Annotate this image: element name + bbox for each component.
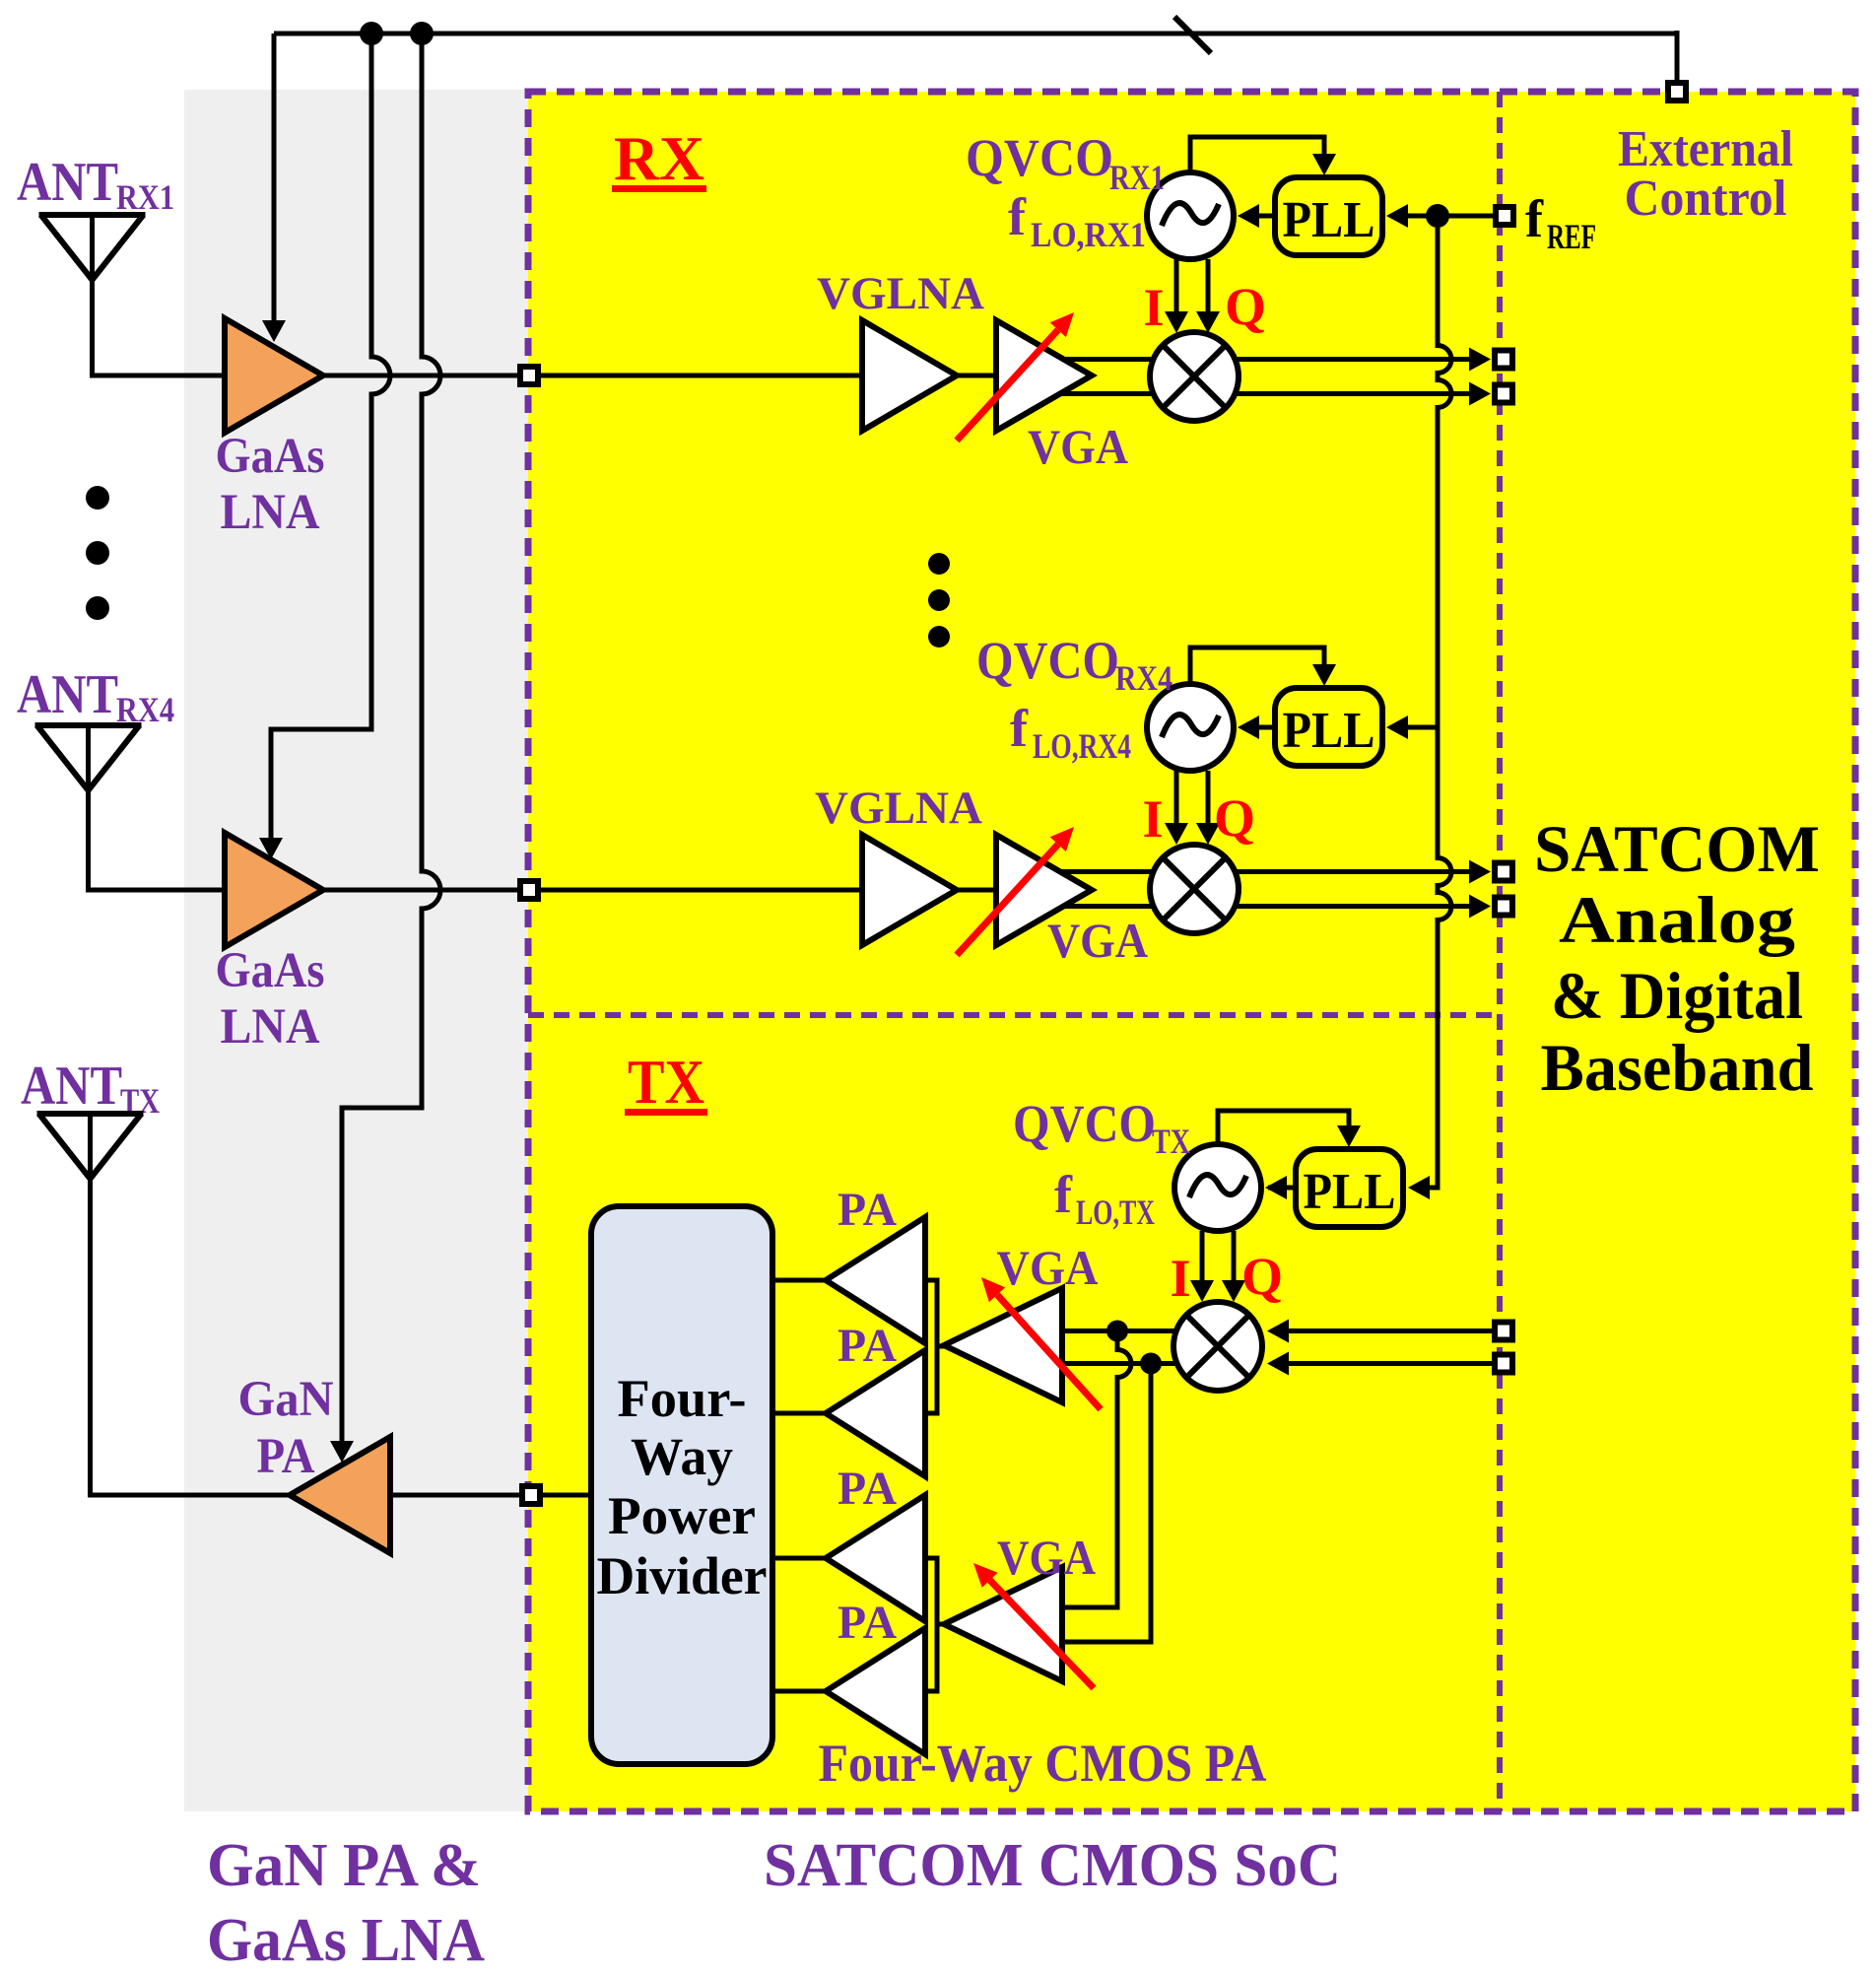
- svg-text:f: f: [1054, 1165, 1073, 1224]
- svg-text:RX1: RX1: [116, 177, 174, 217]
- port baseband Q RX4: [1495, 898, 1512, 916]
- junction TX Q split: [1140, 1353, 1162, 1375]
- wire PA1/PA2 input bus: [925, 1280, 937, 1413]
- port baseband Q TX: [1495, 1355, 1512, 1373]
- svg-text:PA: PA: [837, 1597, 897, 1649]
- arrowhead mixer TX I: [1267, 1320, 1289, 1343]
- gain arrow VGA TX1: [981, 1277, 1101, 1409]
- svg-text:VGA: VGA: [1047, 913, 1148, 968]
- svg-text:RX4: RX4: [1115, 658, 1172, 698]
- gain arrow VGA RX1: [957, 312, 1074, 441]
- ellipsis dots middle: [928, 553, 950, 575]
- wire VGA2 I to mixer2: [1059, 869, 1194, 874]
- antenna ANT_RX4: [35, 725, 142, 790]
- wire divider port 1 to PA1: [772, 1278, 826, 1283]
- svg-text:ANT: ANT: [17, 152, 118, 213]
- svg-text:Control: Control: [1625, 170, 1787, 227]
- arrowhead into PLL TX: [1408, 1176, 1430, 1199]
- amplifier VGA TX1: [944, 1288, 1062, 1402]
- svg-text:QVCO: QVCO: [1013, 1094, 1156, 1153]
- svg-text:QVCO: QVCO: [976, 631, 1119, 690]
- amplifier PA1: [826, 1217, 925, 1343]
- antenna ANT_TX: [37, 1114, 144, 1179]
- svg-text:f: f: [1010, 699, 1029, 758]
- amplifier GaAs LNA2 (orange): [225, 833, 323, 947]
- arrowhead into LNA1: [262, 320, 286, 342]
- oscillator QVCO_TX: [1174, 1144, 1261, 1231]
- block Four-Way Power Divider: [591, 1206, 772, 1764]
- PLL RX1: [1275, 177, 1382, 255]
- wire VGA1 Q to mixer1: [1059, 391, 1194, 396]
- mixer RX4: [1150, 845, 1239, 933]
- svg-text:Baseband: Baseband: [1541, 1030, 1814, 1105]
- wire ANT_RX1 to LNA1: [93, 215, 226, 375]
- arrowhead LO I mixer2: [1165, 823, 1188, 845]
- wire TX I to VGA TX2 with hop: [1062, 1331, 1131, 1608]
- arrowhead into GaN PA: [330, 1441, 354, 1463]
- svg-text:GaAs: GaAs: [216, 943, 325, 998]
- port baseband I RX1: [1495, 351, 1512, 369]
- wire f_REF distribution with hops: [1413, 216, 1451, 1188]
- wire mixer1 Q to baseband: [1194, 391, 1472, 396]
- amplifier VGA TX2: [944, 1567, 1062, 1681]
- svg-text:SATCOM CMOS SoC: SATCOM CMOS SoC: [764, 1832, 1341, 1899]
- wire PLL3 to QVCO_TX: [1268, 1186, 1296, 1191]
- svg-text:REF: REF: [1547, 217, 1596, 256]
- yellow SoC region with dashed purple border: [528, 92, 1855, 1811]
- svg-text:GaAs: GaAs: [216, 429, 325, 484]
- wire control drop to GaAs LNA2 with hop: [271, 34, 390, 839]
- wire VGLNA2 to VGA2: [957, 888, 996, 893]
- wire mixer TX I to VGA TX1: [1062, 1329, 1176, 1333]
- amplifier GaAs LNA1 (orange): [225, 318, 323, 433]
- arrowhead LO I mixer TX: [1190, 1280, 1214, 1302]
- svg-text:GaN: GaN: [238, 1372, 334, 1427]
- svg-text:LNA: LNA: [221, 999, 320, 1055]
- svg-text:Four-: Four-: [618, 1369, 747, 1428]
- wire VGA1 I to mixer1: [1059, 357, 1194, 362]
- amplifier PA2: [826, 1350, 925, 1476]
- amplifier VGLNA2: [862, 835, 957, 945]
- arrowhead into QVCO_RX4: [1238, 715, 1259, 739]
- svg-text:ANT: ANT: [21, 1056, 122, 1117]
- svg-text:LO,RX4: LO,RX4: [1033, 726, 1131, 766]
- svg-text:& Digital: & Digital: [1551, 958, 1803, 1033]
- wire divider port 2 to PA2: [772, 1411, 826, 1416]
- amplifier PA4: [826, 1628, 925, 1754]
- amplifier VGA RX1: [996, 320, 1092, 431]
- arrowhead LO Q mixer2: [1196, 823, 1220, 845]
- gray off-chip region: [184, 90, 528, 1811]
- wire bus drop to SoC edge: [1675, 31, 1680, 83]
- svg-text:TX: TX: [1152, 1122, 1190, 1161]
- oscillator QVCO_RX1: [1147, 172, 1234, 259]
- wire QVCO_RX1 feedback: [1190, 137, 1324, 174]
- wire PA3/PA4 input bus: [925, 1558, 937, 1691]
- svg-text:QVCO: QVCO: [966, 128, 1113, 187]
- wire ANT_RX4 to LNA2: [89, 725, 226, 890]
- wire LO I mixer1: [1174, 259, 1179, 313]
- svg-text:Q: Q: [1241, 1247, 1283, 1306]
- oscillator QVCO_RX4: [1147, 684, 1234, 771]
- svg-text:Analog: Analog: [1559, 882, 1795, 957]
- arrowhead into LNA2: [259, 838, 283, 859]
- wire divider port 4 to PA4: [772, 1689, 826, 1694]
- arrowhead into QVCO_RX1: [1238, 204, 1259, 228]
- svg-text:LO,TX: LO,TX: [1076, 1192, 1155, 1232]
- wire f_REF to PLL1: [1391, 214, 1493, 219]
- svg-text:TX: TX: [628, 1047, 704, 1117]
- svg-text:Divider: Divider: [597, 1546, 768, 1605]
- svg-text:PLL: PLL: [1283, 192, 1375, 248]
- wire LNA1 output to VGLNA1: [323, 374, 862, 378]
- arrowhead I RX1: [1469, 348, 1491, 372]
- svg-text:PA: PA: [257, 1429, 315, 1484]
- mixer TX: [1173, 1302, 1262, 1391]
- svg-text:Four-Way CMOS PA: Four-Way CMOS PA: [819, 1734, 1267, 1793]
- mixer RX1: [1150, 332, 1239, 421]
- arrowhead mixer TX Q: [1267, 1352, 1289, 1376]
- wire VGA2 Q to mixer2: [1059, 904, 1194, 909]
- wire control drop to GaN PA with hops: [342, 34, 440, 1441]
- svg-text:PA: PA: [837, 1463, 897, 1515]
- inner horizontal dashed divider RX/TX: [528, 1012, 1500, 1018]
- junction TX I split: [1106, 1321, 1128, 1342]
- svg-text:PLL: PLL: [1283, 703, 1375, 759]
- wire top external-control bus: [274, 32, 1677, 36]
- wire mixer2 Q to baseband: [1194, 904, 1472, 909]
- wire VGA TX2 to bus: [937, 1622, 948, 1627]
- svg-text:Q: Q: [1225, 277, 1266, 336]
- arrowhead LO Q mixer1: [1196, 311, 1220, 333]
- wire LO Q mixer1: [1206, 259, 1211, 313]
- svg-text:Q: Q: [1214, 788, 1255, 848]
- svg-text:Power: Power: [608, 1486, 756, 1545]
- wire mixer2 I to baseband: [1194, 869, 1472, 874]
- junction f_REF: [1426, 204, 1449, 228]
- wire VGA TX1 to bus: [937, 1344, 948, 1349]
- amplifier VGLNA1: [862, 320, 957, 431]
- ellipsis dots left: [86, 486, 109, 510]
- port external control on SoC border: [1668, 83, 1686, 101]
- wire control drop to GaAs LNA1: [272, 34, 277, 320]
- svg-text:VGA: VGA: [1028, 419, 1128, 474]
- wire LO I mixer2: [1174, 771, 1179, 825]
- wire baseband Q to mixer TX: [1283, 1361, 1494, 1366]
- arrowhead into PLL2 top: [1312, 664, 1336, 686]
- svg-text:RX1: RX1: [1109, 158, 1165, 197]
- arrowhead I RX4: [1469, 860, 1491, 884]
- junction bus to LNA2 control: [360, 22, 383, 45]
- svg-text:GaAs LNA: GaAs LNA: [207, 1907, 485, 1974]
- port baseband I RX4: [1495, 863, 1512, 881]
- wire divider to GaN PA: [390, 1493, 591, 1498]
- wire ANT_TX to GaN PA: [91, 1114, 291, 1495]
- wire TX Q to VGA TX2: [1062, 1364, 1151, 1643]
- wire divider port 3 to PA3: [772, 1556, 826, 1561]
- port TX on SoC border: [522, 1486, 540, 1504]
- svg-text:External: External: [1618, 121, 1793, 177]
- wire LO Q mixer2: [1206, 771, 1211, 825]
- arrowhead into QVCO_TX: [1265, 1176, 1287, 1199]
- svg-text:VGLNA: VGLNA: [815, 783, 982, 834]
- svg-text:I: I: [1143, 278, 1164, 337]
- gain arrow VGA RX4: [957, 827, 1074, 955]
- arrowhead Q RX1: [1469, 382, 1491, 406]
- svg-text:LO,RX1: LO,RX1: [1031, 215, 1146, 254]
- port f_REF: [1496, 207, 1513, 225]
- junction bus to GaN PA control: [410, 22, 434, 45]
- antenna ANT_RX1: [39, 215, 146, 280]
- port RX4 on SoC border: [520, 881, 538, 899]
- port RX1 on SoC border: [520, 367, 538, 384]
- wire baseband I to mixer TX: [1283, 1329, 1494, 1333]
- svg-text:PA: PA: [837, 1320, 897, 1372]
- arrowhead into PLL3 top: [1337, 1125, 1361, 1147]
- svg-text:GaN PA &: GaN PA &: [207, 1832, 481, 1899]
- wire QVCO_RX4 feedback: [1190, 647, 1324, 686]
- wire PLL1 to QVCO_RX1: [1247, 214, 1275, 219]
- port baseband Q RX1: [1495, 385, 1512, 403]
- svg-text:VGA: VGA: [997, 1530, 1096, 1585]
- svg-text:f: f: [1008, 187, 1027, 246]
- PLL RX4: [1275, 688, 1382, 766]
- wire QVCO_TX feedback: [1218, 1111, 1349, 1146]
- svg-text:SATCOM: SATCOM: [1534, 811, 1820, 886]
- svg-text:LNA: LNA: [221, 485, 320, 540]
- svg-text:I: I: [1170, 1249, 1190, 1308]
- svg-text:f: f: [1525, 189, 1544, 248]
- port baseband I TX: [1495, 1323, 1512, 1340]
- wire PLL2 to QVCO_RX4: [1247, 725, 1275, 730]
- wire LNA2 output to VGLNA2: [323, 888, 862, 893]
- svg-text:ANT: ANT: [17, 664, 118, 725]
- svg-text:PA: PA: [837, 1184, 897, 1236]
- wire LO Q mixer TX: [1232, 1231, 1237, 1282]
- PLL TX: [1296, 1149, 1403, 1227]
- wire f_REF branch to PLL2: [1391, 725, 1438, 730]
- arrowhead LO I mixer1: [1165, 311, 1188, 333]
- amplifier PA3: [826, 1495, 925, 1621]
- svg-text:PLL: PLL: [1304, 1164, 1396, 1220]
- bus break slash: [1174, 17, 1211, 53]
- svg-text:RX: RX: [614, 123, 704, 193]
- arrowhead into PLL2 right: [1386, 715, 1408, 739]
- arrowhead into PLL1 top: [1312, 154, 1336, 175]
- wire mixer TX Q to VGA TX1: [1062, 1361, 1176, 1366]
- svg-text:VGLNA: VGLNA: [817, 268, 984, 319]
- arrowhead Q RX4: [1469, 895, 1491, 919]
- amplifier GaN PA (orange): [290, 1437, 390, 1553]
- amplifier VGA RX4: [996, 835, 1092, 945]
- inner vertical dashed divider: [1497, 92, 1503, 1811]
- wire VGLNA1 to VGA1: [957, 374, 996, 378]
- svg-text:VGA: VGA: [997, 1240, 1099, 1295]
- arrowhead into PLL1 right: [1386, 204, 1408, 228]
- svg-text:I: I: [1142, 789, 1163, 849]
- arrowhead LO Q mixer TX: [1222, 1280, 1245, 1302]
- wire LO I mixer TX: [1200, 1231, 1205, 1282]
- svg-text:Way: Way: [631, 1427, 733, 1486]
- wire mixer1 I to baseband: [1194, 357, 1472, 362]
- gain arrow VGA TX2: [973, 1563, 1094, 1688]
